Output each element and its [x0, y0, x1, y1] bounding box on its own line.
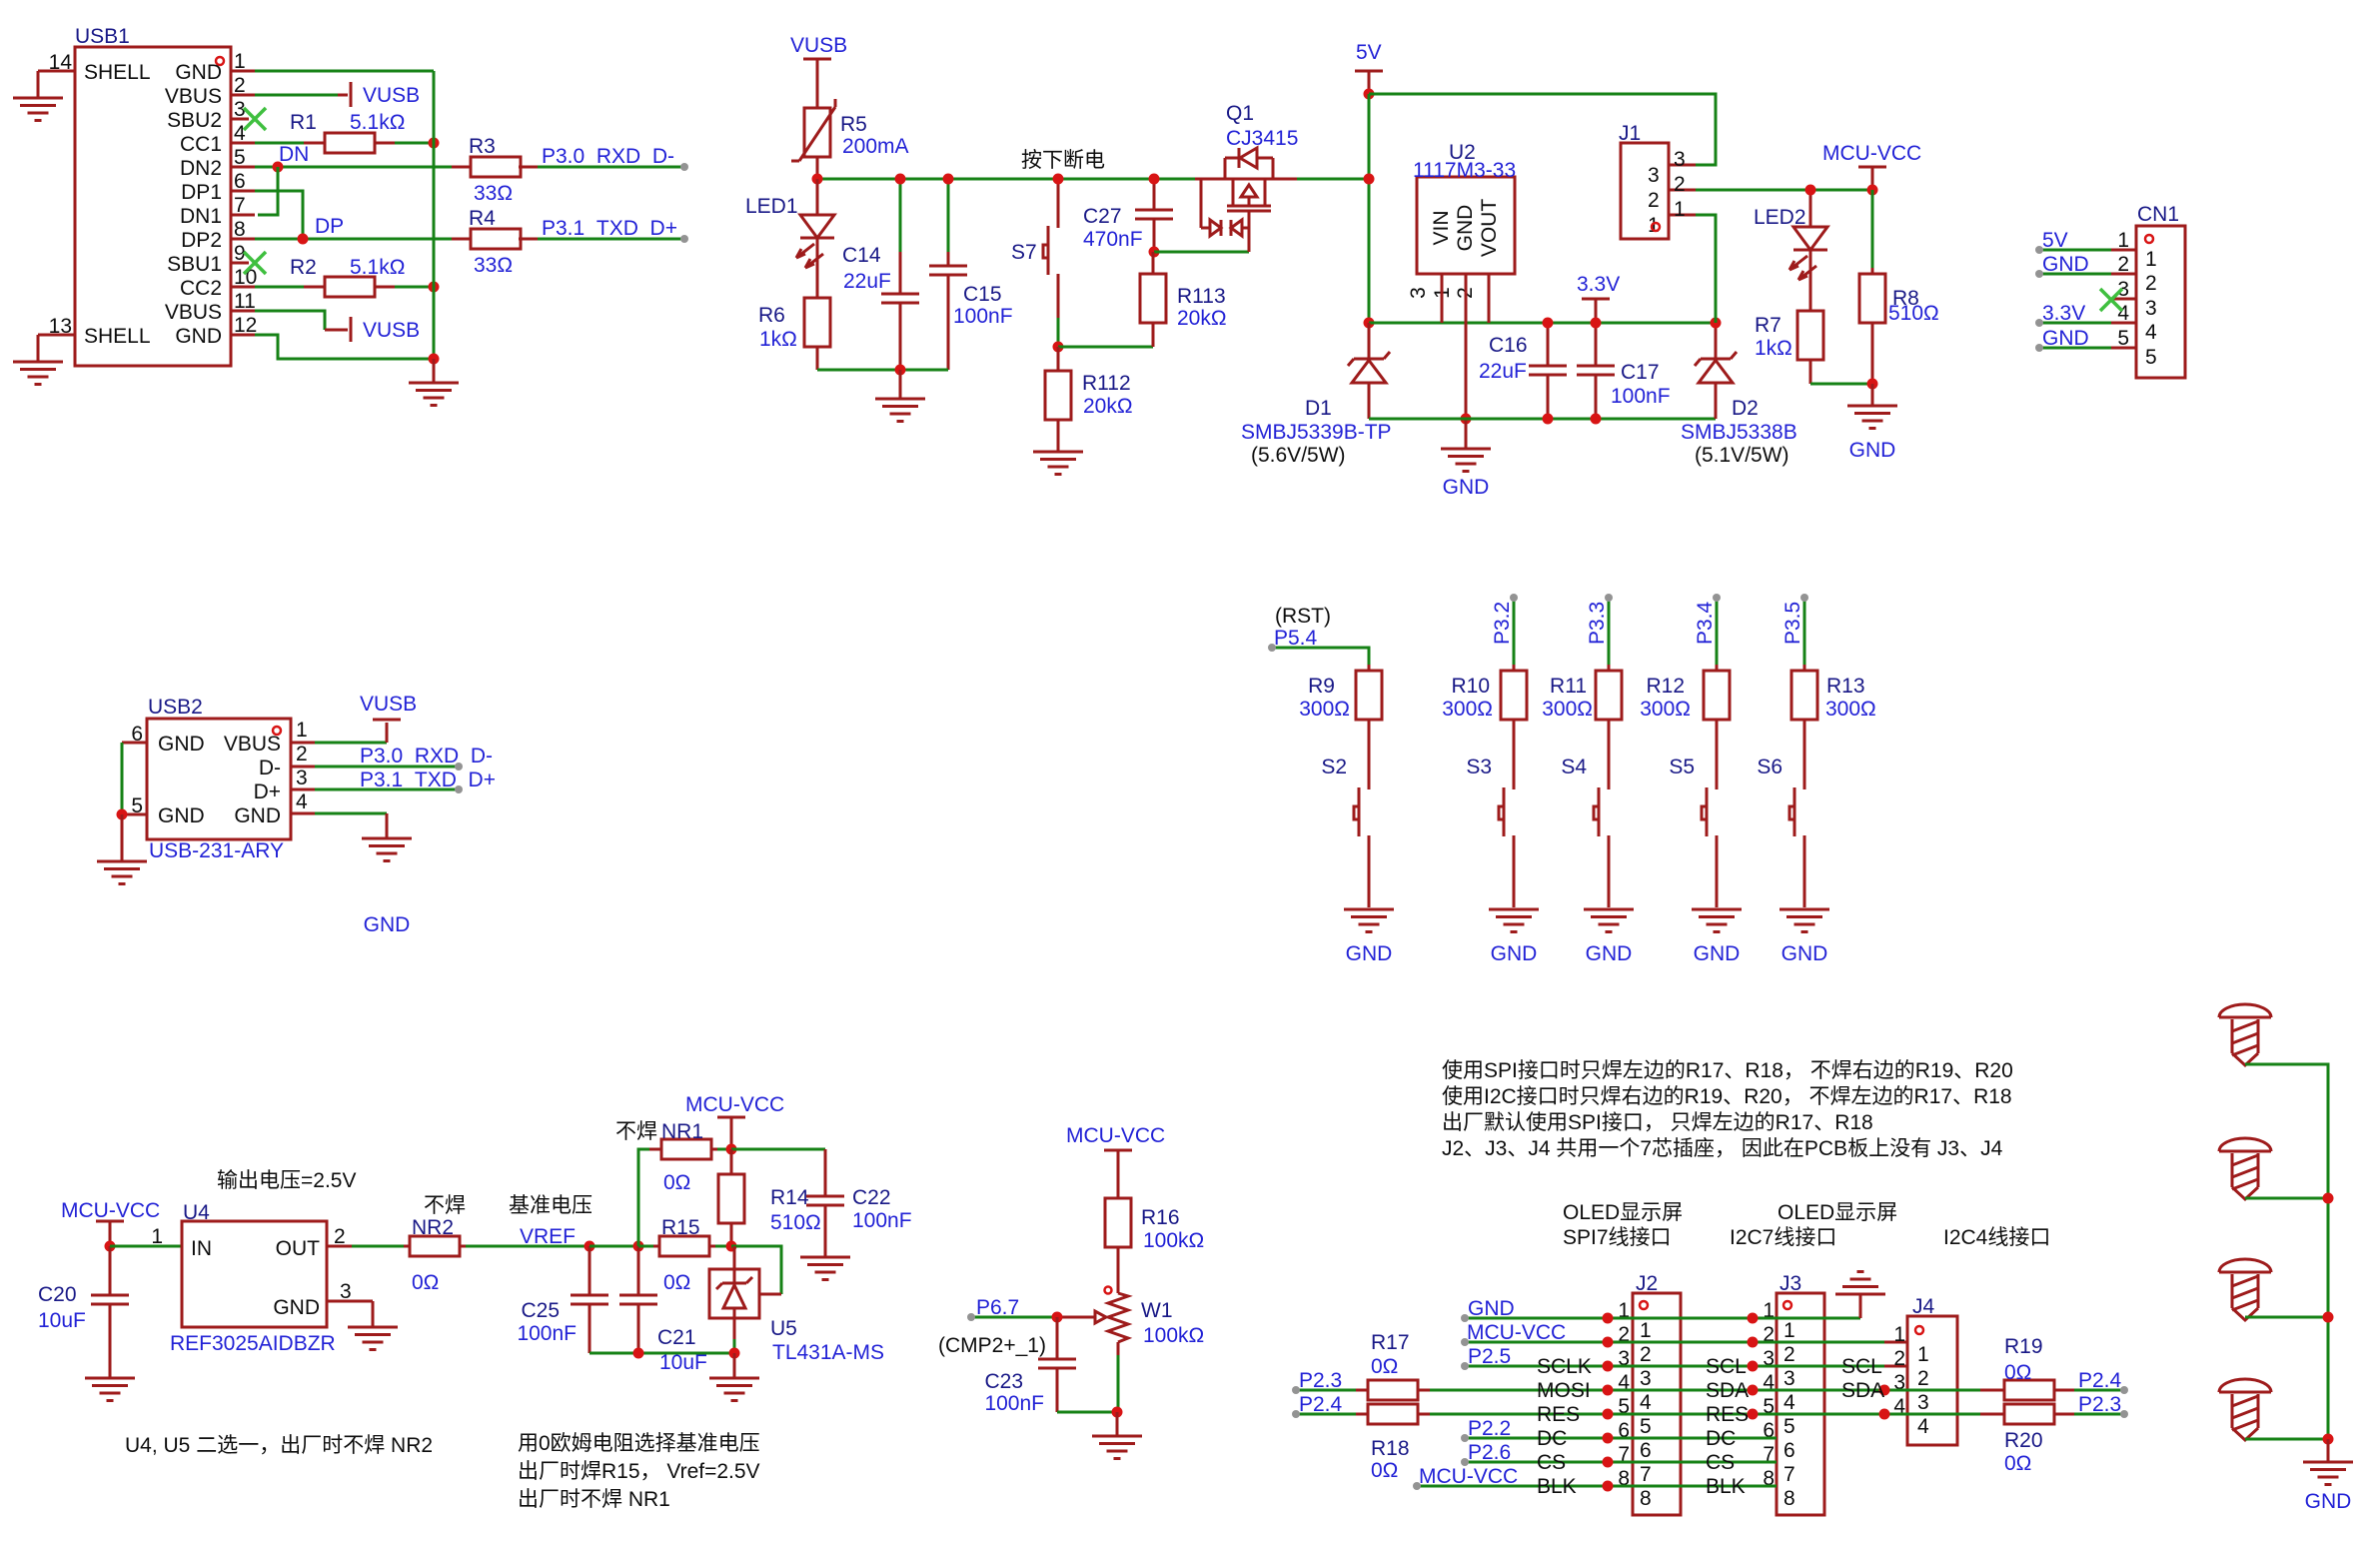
svg-text:4: 4: [1784, 1391, 1795, 1414]
svg-text:R11: R11: [1550, 675, 1587, 698]
svg-text:S6: S6: [1757, 756, 1783, 778]
svg-text:33Ω: 33Ω: [474, 254, 513, 277]
wire row1 GND: [1465, 1317, 1860, 1320]
wire R7 to R8 bottom: [1810, 383, 1872, 386]
resistor R112 20k: [1045, 347, 1133, 452]
ground (screws): [2303, 1439, 2353, 1513]
junction: [1603, 1433, 1614, 1444]
svg-text:5: 5: [2117, 327, 2129, 350]
wire P2.3: [1296, 1389, 1356, 1392]
resistor NR2 0ohm: [404, 1216, 466, 1294]
capacitor C15 100nF: [929, 179, 1013, 370]
resistor R16 100k: [1105, 1198, 1204, 1293]
capacitor C23 100nF: [984, 1317, 1076, 1415]
svg-text:300Ω: 300Ω: [1640, 698, 1691, 721]
J4 pin names: [1841, 1355, 1884, 1402]
svg-text:SMBJ5338B: SMBJ5338B: [1681, 421, 1797, 444]
junction: [1867, 379, 1878, 390]
capacitor C14 22uF: [842, 179, 919, 370]
power port VUSB (USB2): [360, 693, 417, 720]
svg-text:R10: R10: [1451, 675, 1490, 698]
junction: [429, 354, 440, 365]
J2 pin names: [1537, 1355, 1592, 1498]
junction: [1364, 318, 1375, 329]
wire NR1 riser: [638, 1149, 649, 1246]
svg-text:LED2: LED2: [1754, 206, 1806, 229]
svg-text:6: 6: [1640, 1439, 1652, 1462]
screw mount 4: [2219, 1379, 2271, 1440]
svg-text:P3.0 RXD D-: P3.0 RXD D-: [542, 145, 674, 168]
svg-text:2: 2: [2117, 253, 2129, 276]
svg-text:0Ω: 0Ω: [1371, 1355, 1398, 1378]
junction: [726, 1241, 737, 1252]
svg-text:基准电压: 基准电压: [509, 1194, 593, 1217]
svg-text:510Ω: 510Ω: [1888, 302, 1939, 325]
svg-text:4: 4: [296, 790, 308, 813]
svg-text:GND: GND: [158, 804, 205, 827]
junction: [429, 282, 440, 293]
junction: [1364, 174, 1375, 185]
svg-text:R3: R3: [469, 135, 496, 158]
resistor R9 300: [1299, 665, 1382, 789]
junction: [1603, 1457, 1614, 1468]
svg-text:不焊: 不焊: [424, 1194, 466, 1217]
svg-text:470nF: 470nF: [1083, 228, 1143, 251]
connector J2: [1608, 1272, 1681, 1515]
junction: [1603, 1385, 1614, 1396]
power port VUSB (lower): [351, 317, 420, 342]
svg-text:SMBJ5339B-TP: SMBJ5339B-TP: [1241, 421, 1392, 444]
wire GND pin4: [315, 813, 387, 838]
svg-text:20kΩ: 20kΩ: [1083, 395, 1133, 418]
wire to P2.4: [2074, 1389, 2124, 1392]
wire CC bus vertical: [433, 71, 436, 359]
open end: [680, 163, 688, 171]
wire VBUS pin2: [255, 94, 348, 97]
svg-text:VUSB: VUSB: [360, 693, 417, 716]
svg-text:MCU-VCC: MCU-VCC: [685, 1093, 784, 1116]
junction: [1591, 318, 1602, 329]
svg-text:1: 1: [1648, 214, 1660, 237]
junction: [117, 809, 128, 820]
svg-text:USB-231-ARY: USB-231-ARY: [149, 839, 284, 862]
svg-text:P3.5: P3.5: [1782, 602, 1804, 645]
no-connect X pin9 SBU1: [244, 252, 266, 274]
svg-text:OLED显示屏: OLED显示屏: [1778, 1201, 1897, 1224]
svg-text:2: 2: [2145, 272, 2157, 295]
svg-text:R4: R4: [469, 207, 496, 230]
svg-text:VBUS: VBUS: [224, 733, 281, 756]
wire R2 to bus: [395, 286, 434, 289]
svg-text:RES: RES: [1537, 1403, 1580, 1426]
ground (OLED, flipped): [1835, 1272, 1885, 1319]
svg-text:BLK: BLK: [1706, 1475, 1746, 1498]
connector J1: [1619, 122, 1696, 239]
svg-text:VIN: VIN: [1430, 210, 1453, 245]
ground (USB2 pin4): [362, 838, 412, 936]
svg-text:SHELL: SHELL: [84, 325, 151, 348]
resistor R8 510: [1859, 190, 1939, 384]
wire screw2: [2245, 1197, 2328, 1200]
svg-text:SPI7线接口: SPI7线接口: [1563, 1226, 1672, 1249]
junction: [585, 1241, 595, 1252]
junction: [2323, 1434, 2334, 1445]
wire to P2.3: [2074, 1413, 2124, 1416]
svg-text:GND: GND: [158, 733, 205, 756]
svg-text:GND: GND: [1454, 205, 1477, 252]
svg-text:5.1kΩ: 5.1kΩ: [350, 111, 405, 134]
switch S6: [1757, 756, 1804, 907]
svg-text:DP2: DP2: [181, 229, 222, 252]
ground (LED2/R8): [1847, 384, 1897, 462]
junction: [1603, 1361, 1614, 1372]
svg-text:C16: C16: [1489, 334, 1528, 357]
svg-text:1: 1: [2145, 248, 2157, 271]
svg-text:J4: J4: [1912, 1295, 1935, 1318]
wire 5V to J1 pin3: [1369, 94, 1716, 165]
svg-text:0Ω: 0Ω: [2004, 1452, 2031, 1475]
svg-text:R7: R7: [1755, 314, 1782, 337]
capacitor C27 470nF: [1083, 179, 1173, 251]
switch S5: [1669, 756, 1717, 907]
wire to C22: [731, 1148, 825, 1151]
power port MCU-VCC (U4): [61, 1199, 160, 1243]
LED1: [745, 179, 834, 298]
svg-text:D-: D-: [259, 757, 281, 779]
svg-text:U4: U4: [183, 1201, 210, 1224]
svg-text:C27: C27: [1083, 205, 1122, 228]
wire row8 BLK: [1417, 1485, 1777, 1488]
power port MCU-VCC (ref): [685, 1093, 784, 1146]
svg-text:100nF: 100nF: [1611, 385, 1671, 408]
wire screw3: [2245, 1316, 2328, 1319]
junction: [943, 174, 954, 185]
svg-text:RES: RES: [1706, 1403, 1749, 1426]
svg-text:GND: GND: [364, 913, 411, 936]
svg-text:R15: R15: [661, 1216, 700, 1239]
regulator U2 1117M3-33: [1407, 141, 1516, 419]
junction: [1603, 1409, 1614, 1420]
svg-text:1: 1: [1893, 1323, 1905, 1346]
svg-text:SDA: SDA: [1706, 1379, 1749, 1402]
svg-text:R12: R12: [1646, 675, 1685, 698]
svg-text:GND: GND: [273, 1296, 320, 1319]
svg-text:J2、J3、J4 共用一个7芯插座， 因此在PCB板上没有: J2、J3、J4 共用一个7芯插座， 因此在PCB板上没有 J3、J4: [1442, 1137, 2003, 1160]
svg-text:5.1kΩ: 5.1kΩ: [350, 256, 405, 279]
svg-text:D1: D1: [1305, 397, 1332, 420]
svg-text:GND: GND: [2042, 253, 2089, 276]
capacitor C17 100nF: [1577, 323, 1671, 419]
svg-text:TL431A-MS: TL431A-MS: [772, 1341, 884, 1364]
svg-text:GND: GND: [2042, 327, 2089, 350]
wire GND pin12 to bus: [255, 335, 434, 359]
svg-text:输出电压=2.5V: 输出电压=2.5V: [217, 1169, 356, 1192]
main rail wire: [817, 178, 1198, 181]
wire screw bus: [2245, 1064, 2328, 1439]
svg-text:3: 3: [1674, 148, 1686, 171]
ground (USB2 shell): [97, 814, 147, 884]
svg-text:使用SPI接口时只焊左边的R17、R18， 不焊右边的R19: 使用SPI接口时只焊左边的R17、R18， 不焊右边的R19、R20: [1442, 1059, 2013, 1082]
svg-text:OLED显示屏: OLED显示屏: [1563, 1201, 1683, 1224]
svg-text:S5: S5: [1669, 756, 1695, 778]
junction: [1603, 1337, 1614, 1348]
svg-text:R6: R6: [758, 304, 785, 327]
wire CC2 pin10: [255, 286, 304, 289]
svg-text:10uF: 10uF: [38, 1309, 86, 1332]
wire DN2 pin5 net DN: [255, 166, 684, 169]
wire CC1 pin4: [255, 142, 304, 145]
pin 14 SHELL lead: [38, 71, 75, 98]
resistor R2 5.1k: [290, 256, 405, 297]
ground (S6): [1780, 909, 1829, 965]
svg-text:CS: CS: [1537, 1451, 1566, 1474]
junction: [1603, 1481, 1614, 1492]
junction: [895, 174, 906, 185]
svg-text:5V: 5V: [2042, 229, 2068, 252]
svg-text:VUSB: VUSB: [363, 84, 420, 107]
svg-text:5: 5: [1640, 1415, 1652, 1438]
wire CN1 pin4 3.3V: [2039, 322, 2111, 325]
svg-text:SBU2: SBU2: [167, 109, 222, 132]
svg-text:1: 1: [296, 719, 308, 742]
svg-text:GND: GND: [1491, 942, 1538, 965]
svg-text:22uF: 22uF: [1479, 360, 1527, 383]
wire DN to DN1: [258, 167, 278, 215]
junction: [895, 365, 906, 376]
svg-text:GND: GND: [1586, 942, 1633, 965]
junction: [1149, 247, 1160, 258]
ground (USB1 pin13 shell): [13, 362, 63, 385]
svg-text:R13: R13: [1826, 675, 1865, 698]
wire U5 bottom: [733, 1318, 736, 1353]
svg-text:2: 2: [1640, 1343, 1652, 1366]
svg-text:SHELL: SHELL: [84, 61, 151, 84]
wire D+: [315, 788, 459, 791]
svg-text:U4, U5 二选一，出厂时不焊 NR2: U4, U5 二选一，出厂时不焊 NR2: [125, 1434, 433, 1457]
wire row3 SCLK: [1465, 1365, 1884, 1368]
svg-text:J2: J2: [1636, 1272, 1658, 1295]
svg-text:0Ω: 0Ω: [412, 1271, 439, 1294]
svg-text:MCU-VCC: MCU-VCC: [61, 1199, 160, 1222]
svg-text:0Ω: 0Ω: [663, 1171, 690, 1194]
screw mount 1: [2219, 1004, 2271, 1065]
svg-text:2: 2: [1784, 1343, 1795, 1366]
svg-text:GND: GND: [2305, 1490, 2352, 1513]
junction: [1711, 318, 1722, 329]
svg-text:P2.3: P2.3: [2078, 1393, 2121, 1416]
bottom GND rail: [1369, 418, 1716, 421]
svg-text:R112: R112: [1082, 372, 1131, 395]
resistor R13 300: [1791, 665, 1876, 789]
svg-text:S7: S7: [1011, 241, 1037, 264]
resistor R7 1k: [1755, 311, 1823, 384]
svg-text:200mA: 200mA: [842, 135, 909, 158]
wire row6 DC: [1465, 1437, 1777, 1440]
svg-text:GND: GND: [234, 804, 281, 827]
svg-text:8: 8: [1640, 1487, 1652, 1510]
svg-text:R14: R14: [770, 1186, 809, 1209]
switch S7: [1011, 179, 1058, 318]
wire S7 to R113: [1058, 346, 1153, 349]
svg-text:CJ3415: CJ3415: [1226, 127, 1298, 150]
junction: [1461, 414, 1472, 425]
svg-text:100kΩ: 100kΩ: [1143, 1229, 1204, 1252]
wire VIN rail: [1369, 322, 1716, 325]
node DN: [273, 162, 284, 173]
svg-text:CC2: CC2: [180, 277, 222, 300]
ground (S4): [1584, 909, 1634, 965]
svg-text:8: 8: [1784, 1487, 1795, 1510]
svg-text:1kΩ: 1kΩ: [759, 328, 797, 351]
bottom wire LED1/C14/C15: [817, 369, 948, 372]
ground (USB1 CC bus): [409, 359, 459, 406]
wire P3.4: [1716, 598, 1719, 665]
ground (input filter): [875, 370, 925, 422]
svg-text:3: 3: [2145, 297, 2157, 320]
svg-text:U5: U5: [770, 1317, 797, 1340]
svg-text:4: 4: [2117, 302, 2129, 325]
wire NR1 to MCU-VCC: [717, 1148, 731, 1151]
svg-text:VBUS: VBUS: [165, 85, 222, 108]
svg-text:3: 3: [296, 767, 308, 789]
svg-text:VBUS: VBUS: [165, 301, 222, 324]
svg-text:C20: C20: [38, 1283, 77, 1306]
svg-text:3: 3: [1648, 164, 1660, 187]
connector USB1 body: [49, 25, 258, 366]
svg-text:GND: GND: [1346, 942, 1393, 965]
svg-text:R9: R9: [1308, 675, 1335, 698]
svg-text:DN1: DN1: [180, 205, 222, 228]
wire row2 MCU-VCC: [1465, 1341, 1884, 1344]
ground (U2): [1441, 419, 1491, 499]
svg-text:3.3V: 3.3V: [1577, 273, 1620, 296]
wire to U4 IN: [110, 1245, 182, 1248]
svg-text:300Ω: 300Ω: [1299, 698, 1350, 721]
svg-text:4: 4: [2145, 321, 2157, 344]
wire P2.4: [1296, 1413, 1356, 1416]
screw mount 2: [2219, 1138, 2271, 1199]
svg-text:1: 1: [2117, 229, 2129, 252]
resistor R14 510: [718, 1149, 821, 1246]
svg-text:IN: IN: [191, 1237, 212, 1260]
zener D2 SMBJ5338B: [1681, 323, 1797, 467]
junction: [1112, 1407, 1123, 1418]
svg-text:C22: C22: [852, 1186, 891, 1209]
svg-text:R1: R1: [290, 111, 317, 134]
junction: [1867, 185, 1878, 196]
svg-text:4: 4: [1917, 1415, 1929, 1438]
svg-text:不焊: 不焊: [615, 1120, 657, 1143]
svg-text:1kΩ: 1kΩ: [1755, 337, 1792, 360]
ground (USB1 pin14 shell): [13, 98, 63, 121]
svg-text:R20: R20: [2004, 1429, 2043, 1452]
wire U4 OUT: [327, 1245, 404, 1248]
svg-text:1: 1: [151, 1225, 163, 1248]
capacitor C20 10uF: [38, 1246, 129, 1378]
svg-text:DN2: DN2: [180, 157, 222, 180]
resistor R113 20k: [1140, 252, 1227, 347]
svg-text:1: 1: [1674, 198, 1686, 221]
svg-text:GND: GND: [1849, 439, 1896, 462]
power port MCU-VCC (W1): [1066, 1124, 1165, 1198]
wire DP1 pin6 to DP: [255, 191, 303, 237]
capacitor C22 100nF: [806, 1149, 912, 1257]
svg-text:I2C4线接口: I2C4线接口: [1943, 1226, 2050, 1249]
wire row7 CS: [1465, 1461, 1777, 1464]
svg-text:J3: J3: [1780, 1272, 1801, 1295]
svg-text:GND: GND: [175, 325, 222, 348]
ground (U4): [348, 1327, 398, 1350]
svg-text:5: 5: [2145, 346, 2157, 369]
svg-text:出厂默认使用SPI接口， 只焊左边的R17、R18: 出厂默认使用SPI接口， 只焊左边的R17、R18: [1442, 1111, 1873, 1134]
shunt U5 TL431A-MS: [709, 1246, 884, 1364]
svg-text:C14: C14: [842, 244, 881, 267]
transistor Q1 CJ3415: [1195, 102, 1298, 252]
power port VUSB (top): [351, 82, 420, 107]
svg-text:SCLK: SCLK: [1537, 1355, 1592, 1378]
svg-text:300Ω: 300Ω: [1442, 698, 1493, 721]
resistor R17 0ohm: [1356, 1331, 1430, 1400]
wire CN1 pin5 GND: [2039, 347, 2111, 350]
ground (S3): [1489, 909, 1539, 965]
svg-text:0Ω: 0Ω: [1371, 1459, 1398, 1482]
junction: [633, 1241, 644, 1252]
svg-text:VOUT: VOUT: [1478, 199, 1501, 258]
svg-text:C17: C17: [1621, 361, 1660, 384]
J3 pin names: [1706, 1355, 1749, 1498]
LED2: [1754, 190, 1827, 311]
svg-text:DC: DC: [1537, 1427, 1567, 1450]
svg-text:USB1: USB1: [75, 25, 130, 48]
svg-text:C21: C21: [657, 1326, 696, 1349]
svg-text:按下断电: 按下断电: [1021, 149, 1105, 172]
connector USB2 body: [122, 696, 315, 862]
ground (S2): [1344, 909, 1394, 965]
junction: [1364, 89, 1375, 100]
svg-text:I2C7线接口: I2C7线接口: [1730, 1226, 1836, 1249]
svg-text:7: 7: [1784, 1463, 1795, 1486]
svg-text:使用I2C接口时只焊右边的R19、R20， 不焊左边的R17: 使用I2C接口时只焊右边的R19、R20， 不焊左边的R17、R18: [1442, 1085, 2012, 1108]
svg-text:SCL: SCL: [1841, 1355, 1882, 1378]
ground (W1): [1092, 1412, 1142, 1459]
junction: [429, 138, 440, 149]
svg-text:J1: J1: [1619, 122, 1641, 145]
svg-text:2: 2: [1893, 1347, 1905, 1370]
svg-text:100nF: 100nF: [984, 1392, 1044, 1415]
wire VBUS to VUSB: [315, 723, 387, 743]
connector J3: [1753, 1272, 1824, 1515]
wire USB2 gnd link: [121, 743, 124, 814]
capacitor C21 10uF: [619, 1246, 707, 1374]
svg-text:出厂时焊R15， Vref=2.5V: 出厂时焊R15， Vref=2.5V: [518, 1460, 760, 1483]
svg-text:R19: R19: [2004, 1335, 2043, 1358]
open end: [680, 235, 688, 243]
svg-text:510Ω: 510Ω: [770, 1211, 821, 1234]
svg-text:100kΩ: 100kΩ: [1143, 1324, 1204, 1347]
svg-text:R16: R16: [1141, 1206, 1180, 1229]
wire J1 pin1 to 3.3V rail: [1696, 215, 1716, 323]
fuse R5 200mA: [791, 99, 909, 161]
svg-text:LED1: LED1: [745, 195, 798, 218]
svg-text:VUSB: VUSB: [363, 319, 420, 342]
wire DP2 pin8 net DP: [255, 238, 684, 241]
svg-text:(CMP2+_1): (CMP2+_1): [938, 1334, 1046, 1357]
svg-text:100nF: 100nF: [953, 305, 1013, 328]
svg-text:GND: GND: [175, 61, 222, 84]
wire VREF: [466, 1245, 590, 1248]
svg-text:VUSB: VUSB: [790, 34, 847, 57]
svg-text:P3.1 TXD D+: P3.1 TXD D+: [360, 769, 496, 791]
